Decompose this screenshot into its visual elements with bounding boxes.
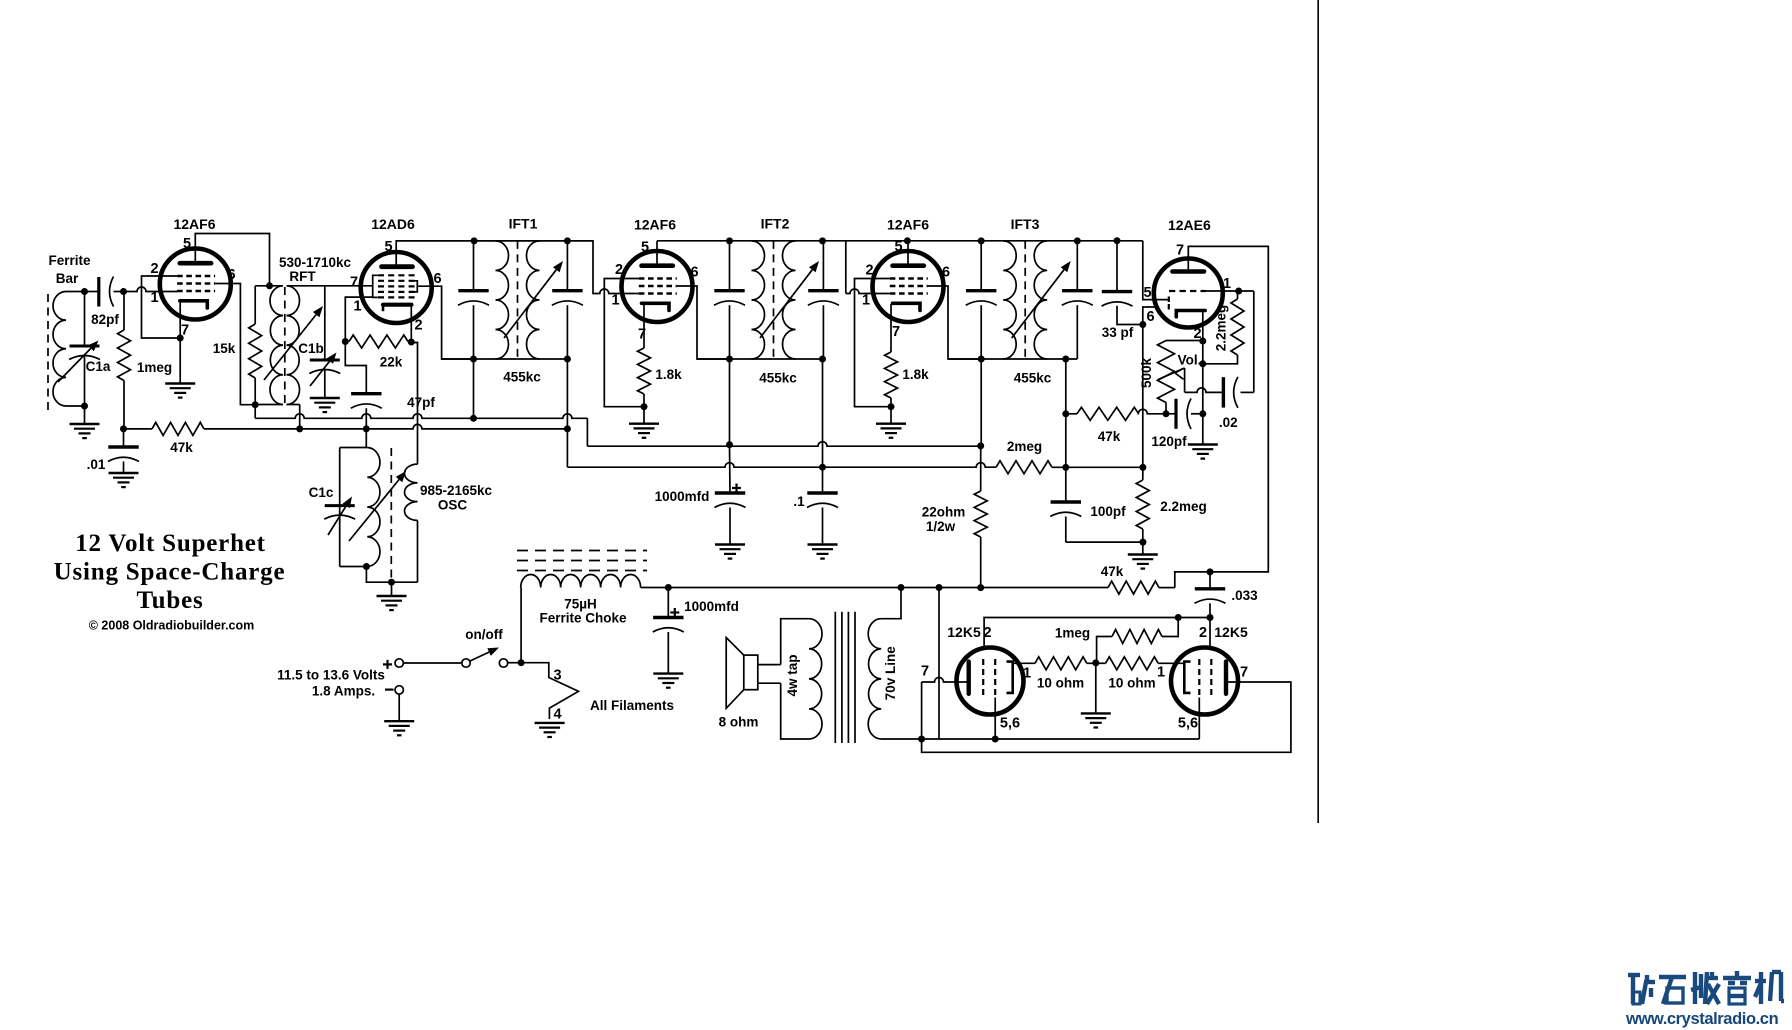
resistor 47k output <box>1101 564 1159 594</box>
node 22k left <box>342 338 349 345</box>
antenna coil L1 <box>53 292 66 407</box>
wire grid V3 <box>599 289 639 294</box>
wire <box>1241 391 1254 393</box>
capacitor 82pf <box>91 277 119 328</box>
wire <box>1095 663 1097 714</box>
resistor 47k AGC <box>152 422 204 455</box>
wire <box>66 292 85 407</box>
tube V3 12AF6 <box>622 217 694 323</box>
capacitor .1 <box>793 493 838 509</box>
pin 1 label <box>1023 666 1031 682</box>
svg-text:2meg: 2meg <box>1007 439 1042 454</box>
output transformer secondary 70v line <box>868 619 898 739</box>
wire IFT2 secondary bottom down <box>822 359 824 467</box>
node AVC right end <box>1139 464 1146 471</box>
node IFT3 secondary takeoff <box>1062 356 1069 363</box>
OSC tuning arrow <box>349 471 406 541</box>
node <box>936 584 943 591</box>
wire speaker leads <box>758 665 781 684</box>
wire RFT secondary bottom <box>287 405 300 429</box>
node 1meg right <box>1175 614 1182 621</box>
node pin1 <box>1235 288 1242 295</box>
battery label <box>277 668 385 699</box>
tube V4 12AF6 <box>873 217 945 323</box>
wire grid V4 <box>846 241 890 294</box>
capacitor 47pf <box>351 394 436 410</box>
svg-text:455kc: 455kc <box>759 371 797 386</box>
pin 7 label <box>892 324 900 340</box>
node switch output <box>518 659 525 666</box>
node choke out <box>665 584 672 591</box>
node cathode V4 <box>888 403 895 410</box>
wire pin2 V3 <box>604 279 641 407</box>
wire wiper <box>1185 368 1224 392</box>
svg-text:33 pf: 33 pf <box>1102 325 1134 340</box>
node 100pf top <box>1062 464 1069 471</box>
svg-text:7: 7 <box>350 275 358 291</box>
svg-text:47k: 47k <box>1101 564 1124 579</box>
svg-text:1.8 Amps.: 1.8 Amps. <box>312 684 375 699</box>
svg-text:75µH: 75µH <box>564 597 597 612</box>
svg-text:1: 1 <box>1223 276 1231 292</box>
tube V6 12K5 <box>947 624 1023 715</box>
wire pin1 V2 <box>345 297 372 342</box>
svg-text:2: 2 <box>1199 625 1207 641</box>
svg-text:455kc: 455kc <box>1014 371 1052 386</box>
resistor 10ohm second <box>1106 657 1159 691</box>
tube V5 12AE6 <box>1154 217 1223 328</box>
svg-text:455kc: 455kc <box>503 370 541 385</box>
svg-text:2: 2 <box>414 318 422 334</box>
svg-text:IFT2: IFT2 <box>761 216 790 232</box>
node IFT1 secondary bottom <box>564 425 571 432</box>
wire main 12V line <box>641 587 1175 589</box>
svg-text:Tubes: Tubes <box>136 587 203 614</box>
tube V2 12AD6 <box>361 216 432 323</box>
pin 6 label <box>690 265 698 281</box>
variable capacitor C1c <box>309 485 356 535</box>
wire RFT primary bottom <box>255 404 283 406</box>
node IFT1 primary bottom <box>470 356 477 363</box>
pin 7 label <box>1240 665 1248 681</box>
RFT secondary coil <box>287 286 300 405</box>
wire <box>1166 413 1203 415</box>
resistor 1meg <box>118 330 173 381</box>
node volume pot bottom <box>1163 410 1170 417</box>
pin 5 label <box>183 236 191 252</box>
copyright text <box>89 619 255 633</box>
svg-text:Ferrite: Ferrite <box>48 253 91 268</box>
wire IFT3 secondary down <box>1065 359 1067 414</box>
tube V1 12AF6 <box>160 216 232 320</box>
svg-text:1000mfd: 1000mfd <box>684 599 739 614</box>
battery plus terminal <box>383 660 392 669</box>
RFT core dashed line <box>284 287 286 404</box>
wire <box>667 588 669 674</box>
wire B+ rail right <box>657 240 1143 242</box>
wire <box>254 286 256 405</box>
wire <box>781 619 809 739</box>
svg-text:.1: .1 <box>793 494 805 509</box>
output transformer primary 4w tap <box>785 619 822 739</box>
wire cathode V4 <box>890 304 892 352</box>
wire <box>340 448 368 567</box>
ferrite bar antenna label <box>48 253 91 286</box>
oscillator coil 985-2165kc label <box>420 483 493 513</box>
pin 1 label <box>353 299 361 315</box>
OSC primary coil <box>367 448 380 567</box>
node antenna top <box>81 288 88 295</box>
svg-text:3: 3 <box>553 668 561 684</box>
capacitor 33pf <box>1102 292 1134 340</box>
svg-text:985-2165kc: 985-2165kc <box>420 483 493 498</box>
pin 7 label <box>921 664 929 680</box>
wire pot top <box>1166 340 1203 342</box>
svg-text:2: 2 <box>983 625 991 641</box>
node IFT2 primary top <box>726 237 733 244</box>
node B+ 1000mfd <box>726 441 733 448</box>
resistor 2meg <box>996 439 1052 474</box>
wire <box>520 588 522 663</box>
pin 2 label <box>615 262 623 278</box>
node screen feed <box>266 282 273 289</box>
wire pin2 V7 <box>1209 618 1211 651</box>
svg-text:Vol.: Vol. <box>1178 353 1202 368</box>
svg-text:12AF6: 12AF6 <box>887 217 929 233</box>
watermark url text <box>1625 1010 1779 1028</box>
ground <box>629 424 659 438</box>
svg-text:7: 7 <box>1240 665 1248 681</box>
pin 1 label <box>150 290 158 306</box>
svg-text:2.2meg: 2.2meg <box>1160 499 1207 514</box>
pin 2 label <box>1193 326 1201 342</box>
pin 7 label <box>350 275 358 291</box>
node cathode V3 <box>641 403 648 410</box>
wire <box>881 588 921 740</box>
pin 7 label <box>638 327 646 343</box>
ground <box>1081 713 1111 727</box>
wire IFT3 primary bottom to bus <box>980 359 982 446</box>
node transformer top <box>898 584 905 591</box>
svg-text:RFT: RFT <box>289 269 316 284</box>
wire <box>1142 467 1144 554</box>
wire <box>84 406 86 424</box>
wire <box>1065 414 1067 502</box>
wire OSC bottom <box>366 567 417 597</box>
svg-text:100pf: 100pf <box>1090 504 1126 519</box>
wire IFT2 bottom <box>697 358 823 360</box>
node plate V1 <box>252 401 259 408</box>
ground <box>808 545 838 559</box>
resistor 1.8k first <box>638 348 683 394</box>
node OSC bottom left <box>363 563 370 570</box>
switch on/off <box>395 627 508 667</box>
wire <box>1202 414 1204 445</box>
svg-text:6: 6 <box>227 267 235 283</box>
pin 7 label <box>1176 243 1184 259</box>
node IFT3 primary top <box>978 237 985 244</box>
node 33pf bottom <box>1139 321 1146 328</box>
OSC core dashed line <box>390 448 392 578</box>
pin 6 label <box>942 265 950 281</box>
transformer IFT1 <box>458 216 583 385</box>
wire IFT1 bottom <box>442 358 568 360</box>
capacitor .033 <box>1195 588 1259 603</box>
inductor 75uH ferrite choke <box>521 574 641 625</box>
svg-text:15k: 15k <box>213 341 236 356</box>
RFT tuning arrow <box>264 306 323 380</box>
ferrite choke dashed core <box>517 551 647 571</box>
ground <box>535 723 565 737</box>
svg-text:Bar: Bar <box>56 271 79 286</box>
svg-text:2: 2 <box>150 261 158 277</box>
watermark crystalradio logo <box>1628 971 1784 1004</box>
wire pin5 V4 to rail <box>907 241 909 266</box>
ground <box>109 473 139 487</box>
wire <box>84 292 86 407</box>
svg-text:5,6: 5,6 <box>1000 716 1020 732</box>
svg-text:5: 5 <box>1143 285 1151 301</box>
capacitor .02 <box>1219 377 1238 430</box>
pin 1 label <box>1157 665 1165 681</box>
wire <box>890 398 892 424</box>
node pot top jct <box>1199 338 1206 345</box>
svg-text:4: 4 <box>553 707 561 723</box>
svg-text:C1c: C1c <box>309 485 334 500</box>
svg-text:7: 7 <box>1176 243 1184 259</box>
resistor 2.2meg grid <box>1213 299 1244 355</box>
wire detector AVC line <box>567 463 1143 468</box>
wire <box>85 291 124 293</box>
svg-text:70v Line: 70v Line <box>883 646 898 701</box>
resistor 1.8k second <box>885 352 930 398</box>
wire <box>1013 662 1096 664</box>
node antenna bottom <box>81 403 88 410</box>
svg-text:12K5: 12K5 <box>1214 624 1248 640</box>
svg-text:All Filaments: All Filaments <box>590 698 674 713</box>
wire pin1 12AE6 <box>1206 291 1254 392</box>
node IFT2 secondary top <box>819 237 826 244</box>
node IFT3 secondary top <box>1074 237 1081 244</box>
node B+ bus end <box>977 442 984 449</box>
svg-text:47k: 47k <box>170 440 193 455</box>
node rail 33pf top <box>1114 237 1121 244</box>
svg-text:www.crystalradio.cn: www.crystalradio.cn <box>1625 1010 1779 1028</box>
wire pin 5,6 V6 <box>994 698 996 740</box>
node 22k right <box>408 339 415 346</box>
svg-text:© 2008 Oldradiobuilder.com: © 2008 Oldradiobuilder.com <box>89 619 255 633</box>
transformer RFT 530-1710kc label <box>279 255 352 284</box>
wire plate rail 12AE6 <box>1175 246 1269 587</box>
wire pin7 V6 <box>922 678 967 740</box>
resistor 15k <box>213 324 262 378</box>
wire <box>822 467 824 544</box>
node cathode V1 <box>177 335 184 342</box>
wire cathode V1 <box>179 302 181 384</box>
wire grid line 12AE6 <box>1143 241 1168 300</box>
wire pin6 V3 plate <box>693 286 730 359</box>
svg-text:82pf: 82pf <box>91 312 119 327</box>
wire pin5 V3 to rail <box>656 241 658 266</box>
battery minus terminal <box>385 686 403 694</box>
wire <box>123 429 125 473</box>
wire <box>1209 572 1211 618</box>
node grid1 junction <box>120 288 127 295</box>
svg-text:1/2w: 1/2w <box>926 519 956 534</box>
svg-text:2: 2 <box>865 263 873 279</box>
variable capacitor C1a <box>58 341 111 383</box>
svg-text:22ohm: 22ohm <box>922 505 966 520</box>
wire pin7 V7 loop <box>922 682 1291 752</box>
pin 6 label <box>227 267 235 283</box>
node IFT1 primary top <box>471 237 478 244</box>
svg-text:Ferrite Choke: Ferrite Choke <box>539 611 627 626</box>
svg-text:12 Volt Superhet: 12 Volt Superhet <box>75 530 266 557</box>
pin 6 label <box>1146 309 1154 325</box>
svg-text:1: 1 <box>150 290 158 306</box>
ground <box>70 424 100 438</box>
pin 2 label <box>865 263 873 279</box>
svg-text:IFT1: IFT1 <box>509 216 538 232</box>
pot wiper arrow <box>1158 368 1185 380</box>
pin 2 label <box>150 261 158 277</box>
svg-text:C1a: C1a <box>86 359 111 374</box>
OSC secondary coil <box>404 464 417 520</box>
svg-text:.033: .033 <box>1231 588 1258 603</box>
svg-text:8 ohm: 8 ohm <box>719 715 759 730</box>
wire <box>1203 291 1238 364</box>
page divider line <box>1317 0 1319 823</box>
svg-text:10 ohm: 10 ohm <box>1108 676 1155 691</box>
node 22ohm bottom <box>977 584 984 591</box>
wire pin6 V4 plate <box>944 286 981 359</box>
pin 5 label <box>1143 285 1151 301</box>
svg-text:Using Space-Charge: Using Space-Charge <box>54 559 286 586</box>
wire <box>345 342 366 448</box>
transformer IFT3 <box>966 216 1093 386</box>
node ground jct <box>1139 539 1146 546</box>
ground <box>1128 555 1158 569</box>
wire <box>1096 662 1185 664</box>
resistor 2.2meg AVC <box>1136 480 1206 529</box>
svg-text:7: 7 <box>921 664 929 680</box>
wire output bottom <box>922 698 1200 740</box>
wire <box>398 694 400 721</box>
output transformer core <box>835 612 855 743</box>
wire pin2 V4 <box>855 279 892 407</box>
node <box>470 415 477 422</box>
pin 2 label <box>1199 625 1207 641</box>
resistor 22ohm <box>922 491 987 537</box>
node RFT secondary bottom <box>296 425 303 432</box>
svg-text:22k: 22k <box>380 355 403 370</box>
capacitor 100pf <box>1050 502 1126 519</box>
pin 5,6 label <box>1000 716 1020 732</box>
wire IFT3 bottom <box>948 358 1077 360</box>
svg-text:C1b: C1b <box>298 341 324 356</box>
svg-text:2: 2 <box>615 262 623 278</box>
svg-text:1meg: 1meg <box>1055 626 1090 641</box>
wire cathode 12AE6 <box>1202 311 1204 414</box>
wire pin6 V2 plate <box>417 286 473 359</box>
wire grid bus output <box>984 618 1210 651</box>
pin 1 label <box>1223 276 1231 292</box>
wire pin5 V2 to rail <box>396 241 599 294</box>
svg-text:11.5 to 13.6 Volts: 11.5 to 13.6 Volts <box>277 668 385 683</box>
wire screen node to RFT <box>255 285 283 287</box>
wire <box>1097 618 1179 663</box>
pin 7 label <box>181 323 189 339</box>
wire pin5 V1 to rail <box>195 234 269 286</box>
capacitor .01 <box>87 447 139 472</box>
svg-text:5: 5 <box>384 239 392 255</box>
svg-text:1: 1 <box>1157 665 1165 681</box>
svg-text:12K5: 12K5 <box>947 624 981 640</box>
node 47pf bottom <box>363 425 370 432</box>
resistor 10ohm first <box>1035 657 1087 691</box>
all filaments label <box>590 698 674 713</box>
filament connection 3-4 <box>521 663 578 723</box>
wire pin6 12AE6 <box>1143 307 1158 467</box>
variable capacitor C1b <box>298 341 340 386</box>
resistor 1meg output <box>1055 626 1162 644</box>
resistor 22k <box>349 335 408 370</box>
pin 5,6 label <box>1178 716 1198 732</box>
wire IFT2 primary bottom to bus <box>729 359 731 445</box>
wire <box>124 287 178 292</box>
svg-text:on/off: on/off <box>465 627 503 642</box>
pin 2 label <box>414 318 422 334</box>
svg-text:47pf: 47pf <box>407 395 435 410</box>
node .033 top <box>1207 568 1214 575</box>
svg-text:1: 1 <box>862 293 870 309</box>
node pin5 V4 rail <box>904 237 911 244</box>
pin 2 label <box>983 625 991 641</box>
wire <box>938 588 940 740</box>
svg-text:6: 6 <box>1146 309 1154 325</box>
node IFT2 primary bottom <box>726 356 733 363</box>
svg-text:.01: .01 <box>87 457 106 472</box>
title text <box>54 530 286 614</box>
potentiometer 500k Vol <box>1139 341 1201 403</box>
pin 5 label <box>641 240 649 256</box>
transformer IFT2 <box>714 216 839 386</box>
capacitor 1000mfd filter <box>655 484 746 508</box>
svg-text:5: 5 <box>641 240 649 256</box>
node IFT3 primary bottom <box>978 356 985 363</box>
svg-text:10 ohm: 10 ohm <box>1037 676 1084 691</box>
svg-text:12AF6: 12AF6 <box>634 217 676 233</box>
svg-text:7: 7 <box>892 324 900 340</box>
node 47k top left <box>1062 410 1069 417</box>
wire <box>254 405 256 419</box>
wire <box>123 292 125 429</box>
ground <box>384 721 414 735</box>
svg-text:4w tap: 4w tap <box>785 654 800 696</box>
svg-text:5: 5 <box>894 239 902 255</box>
capacitor 120pf <box>1151 399 1191 450</box>
wire <box>1117 241 1143 325</box>
svg-text:1000mfd: 1000mfd <box>655 489 710 504</box>
svg-text:6: 6 <box>942 265 950 281</box>
wire <box>508 662 521 664</box>
pin 6 label <box>433 271 441 287</box>
svg-text:500k: 500k <box>1139 357 1154 388</box>
wire cathode V3 <box>643 304 645 348</box>
capacitor 1000mfd main <box>653 599 739 632</box>
node OSC ground <box>388 579 395 586</box>
svg-text:5: 5 <box>183 236 191 252</box>
